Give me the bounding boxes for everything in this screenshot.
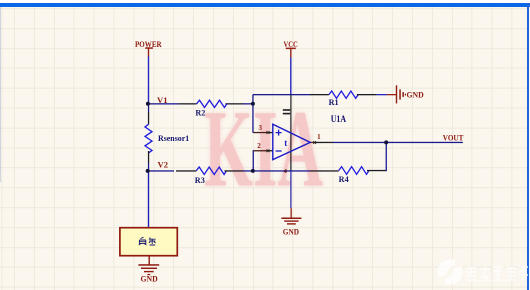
svg-text:VCC: VCC: [284, 40, 298, 49]
svg-text:3: 3: [259, 124, 263, 132]
svg-text:t: t: [284, 138, 287, 148]
svg-text:GND: GND: [407, 90, 424, 99]
svg-text:POWER: POWER: [135, 40, 162, 49]
svg-text:Rsensor1: Rsensor1: [158, 134, 189, 143]
svg-text:U1A: U1A: [331, 115, 347, 125]
svg-text:KIA: KIA: [204, 88, 323, 210]
svg-text:V1: V1: [157, 96, 168, 105]
svg-text:R3: R3: [195, 176, 205, 185]
svg-text:2: 2: [257, 142, 261, 150]
svg-text:R2: R2: [195, 108, 205, 117]
svg-text:R4: R4: [339, 175, 349, 184]
svg-text:R1: R1: [329, 98, 339, 107]
svg-text:V2: V2: [158, 160, 169, 169]
svg-text:1: 1: [317, 133, 321, 141]
svg-text:GND: GND: [283, 228, 299, 237]
svg-text:GND: GND: [141, 275, 158, 284]
svg-text:VOUT: VOUT: [443, 133, 464, 142]
